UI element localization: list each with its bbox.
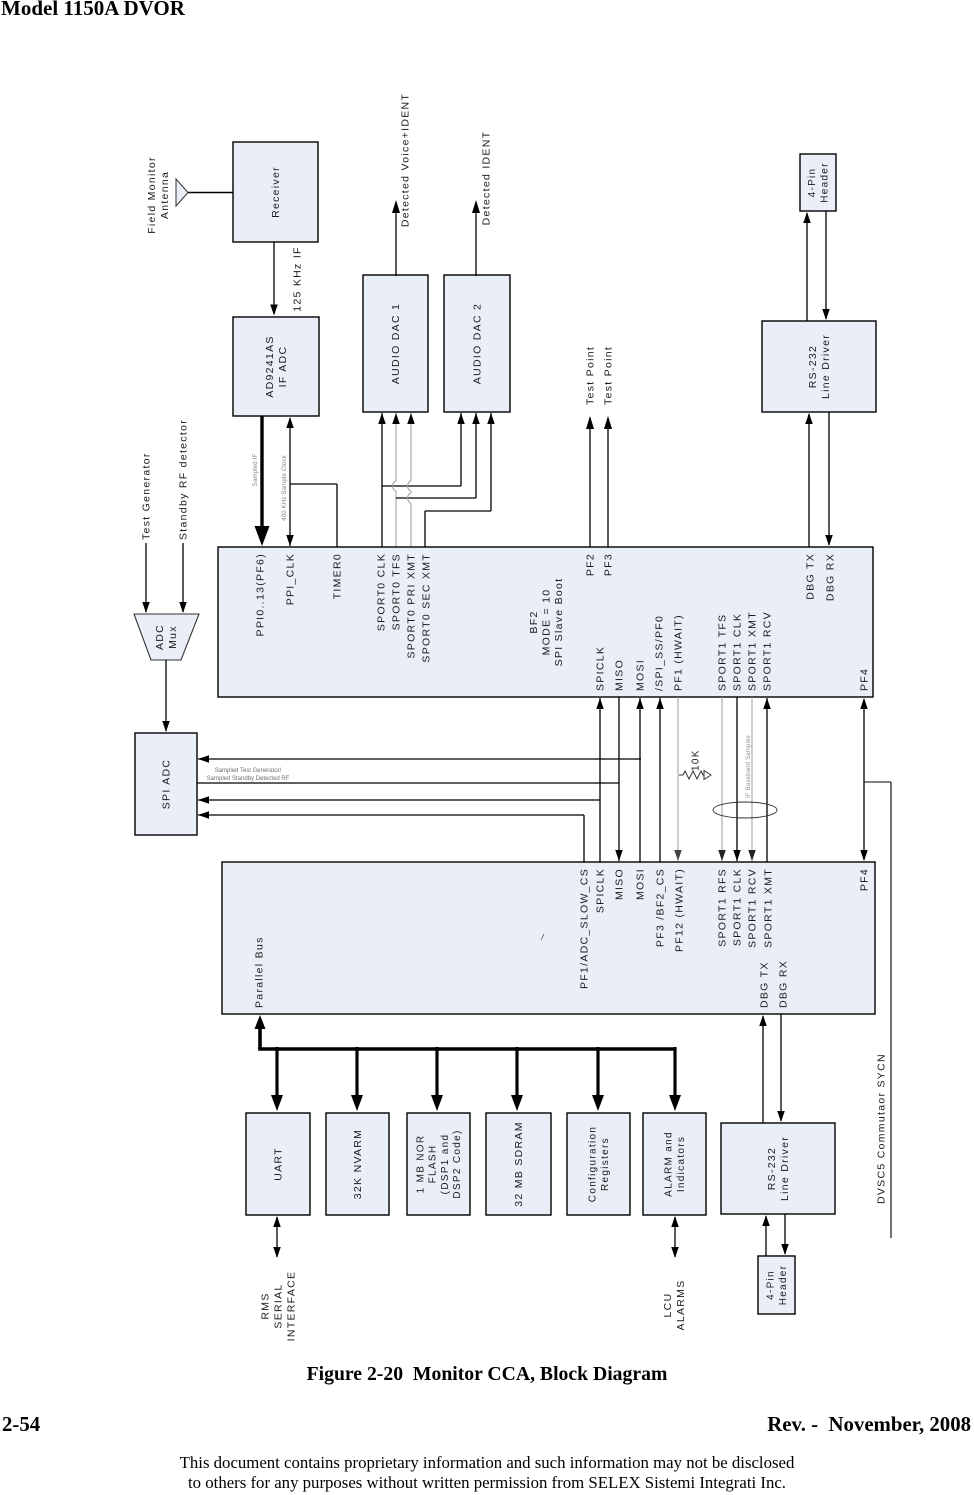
- block Receiver: [233, 142, 318, 242]
- svg-text:PPI0..13(PF6): PPI0..13(PF6): [255, 553, 267, 636]
- svg-text:ADCMux: ADCMux: [154, 624, 179, 650]
- block ALARM and Indicators: [643, 1113, 706, 1215]
- processor U2 DSP (Parallel Bus master): [222, 862, 875, 1014]
- svg-text:SPORT1 CLK: SPORT1 CLK: [732, 868, 744, 946]
- wire MISO vertical: [615, 697, 623, 861]
- svg-text:AUDIO DAC 1: AUDIO DAC 1: [390, 303, 402, 384]
- svg-text:Sampled IF: Sampled IF: [253, 454, 259, 487]
- bus branch to 32K NVARM: [351, 1047, 363, 1111]
- wire SPORT0 CLK to DACs: [378, 413, 465, 547]
- wire RS-232 to 4-Pin header (down): [781, 1214, 789, 1255]
- svg-text:PF3 /BF2_CS: PF3 /BF2_CS: [655, 868, 667, 947]
- wire antenna to Receiver: [188, 192, 233, 194]
- wire header to RS-232 (up): [803, 212, 811, 321]
- svg-text:Field MonitorAntenna: Field MonitorAntenna: [146, 156, 171, 234]
- figure caption: [0, 1363, 974, 1386]
- svg-text:Standby RF detector: Standby RF detector: [178, 419, 190, 540]
- svg-text:PF4: PF4: [859, 868, 871, 891]
- svg-text:UART: UART: [273, 1147, 285, 1181]
- wire DBG RX (down into DSP1): [825, 412, 833, 546]
- wire 125 KHz IF: [270, 242, 303, 316]
- wire ADC Mux to SPI ADC: [162, 660, 170, 732]
- svg-text:Receiver: Receiver: [270, 166, 282, 218]
- block RS-232 Line Driver (bottom): [721, 1123, 835, 1214]
- antenna Field Monitor Antenna: [146, 156, 188, 234]
- wire SPORT0 PRI XMT to DAC1: [407, 413, 415, 547]
- svg-text:TIMER0: TIMER0: [332, 553, 344, 599]
- block 4-Pin Header (bottom): [758, 1256, 795, 1314]
- svg-text:SPI ADC: SPI ADC: [161, 759, 173, 810]
- svg-text:PPI_CLK: PPI_CLK: [285, 553, 297, 605]
- page header: [1, 0, 185, 21]
- wire DBG RX (down into RS-232): [777, 1014, 785, 1122]
- block AUDIO DAC 2: [444, 275, 510, 412]
- block AUDIO DAC 1: [363, 275, 428, 412]
- wire SPORT1 CLK: [733, 697, 741, 861]
- wire RMS SERIAL INTERFACE (bidirectional): [260, 1216, 298, 1341]
- svg-text:SPICLK: SPICLK: [595, 646, 607, 691]
- wire PF4 (bidirectional): [860, 698, 868, 861]
- svg-text:SPORT0 CLK: SPORT0 CLK: [376, 553, 388, 631]
- svg-text:ConfigurationRegisters: ConfigurationRegisters: [588, 1126, 611, 1202]
- wire Standby RF detector input: [178, 419, 190, 613]
- svg-text:MISO: MISO: [614, 659, 626, 691]
- wire SPICLK to SPI ADC: [198, 796, 600, 804]
- block RS-232 Line Driver (top): [762, 321, 876, 412]
- wire SPORT1 RCV/XMT: [763, 698, 771, 862]
- svg-text:Detected Voice+IDENT: Detected Voice+IDENT: [400, 93, 412, 227]
- wire RS-232 to 4-Pin header (up): [762, 1215, 770, 1256]
- svg-text:SPORT1 CLK: SPORT1 CLK: [732, 613, 744, 691]
- svg-text:AUDIO DAC 2: AUDIO DAC 2: [472, 303, 484, 384]
- bus branch to FLASH: [431, 1047, 443, 1111]
- wire MOSI vertical: [636, 698, 644, 862]
- svg-text:Detected IDENT: Detected IDENT: [481, 131, 493, 226]
- bus branch to UART: [271, 1047, 283, 1111]
- svg-text:SPORT1 XMT: SPORT1 XMT: [763, 868, 775, 948]
- svg-text:PF1 (HWAIT): PF1 (HWAIT): [673, 614, 685, 691]
- svg-text:PF2: PF2: [585, 553, 597, 576]
- footer page number: [2, 1413, 40, 1437]
- svg-text:IF Baseband Samples: IF Baseband Samples: [746, 735, 752, 798]
- wire Test Generator input: [141, 452, 153, 613]
- svg-text:Sampled Standby Detected RF: Sampled Standby Detected RF: [207, 776, 290, 782]
- bus Parallel Bus trunk: [255, 1015, 677, 1049]
- svg-text:4-PinHeader: 4-PinHeader: [807, 162, 830, 203]
- svg-text:Test Point: Test Point: [585, 346, 597, 405]
- wire SPORT0 TFS to DACs: [392, 413, 480, 547]
- svg-text:SPORT1 XMT: SPORT1 XMT: [747, 611, 759, 691]
- svg-text:125 KHz IF: 125 KHz IF: [292, 246, 304, 312]
- svg-text:LCUALARMS: LCUALARMS: [662, 1280, 687, 1331]
- block 1 MB NOR FLASH: [407, 1113, 470, 1215]
- block 32K NVARM: [326, 1113, 389, 1215]
- svg-text:1 MB NORFLASH(DSP1 andDSP2 Cod: 1 MB NORFLASH(DSP1 andDSP2 Code): [416, 1129, 464, 1198]
- wire Detected IDENT: [472, 131, 493, 276]
- wire DBG TX (up into DSP2): [759, 1015, 767, 1123]
- svg-text:PF3: PF3: [603, 553, 615, 576]
- svg-text:DBG TX: DBG TX: [759, 961, 771, 1008]
- wire SPORT0 SEC XMT to DAC2: [425, 413, 495, 547]
- footer disclaimer: [0, 1453, 974, 1473]
- wire SPICLK vertical: [596, 698, 604, 862]
- footer revision: [767, 1413, 971, 1437]
- svg-text:Test Point: Test Point: [603, 346, 615, 405]
- svg-text:SPORT1 RCV: SPORT1 RCV: [762, 611, 774, 691]
- svg-text:ALARM andIndicators: ALARM andIndicators: [664, 1131, 687, 1197]
- wire LCU ALARMS (bidirectional): [662, 1216, 687, 1330]
- svg-text:Parallel Bus: Parallel Bus: [254, 936, 266, 1008]
- svg-text:4-PinHeader: 4-PinHeader: [766, 1265, 789, 1306]
- svg-text:SPORT0 SEC XMT: SPORT0 SEC XMT: [421, 553, 433, 663]
- svg-text:/SPI_SS/PF0: /SPI_SS/PF0: [654, 615, 666, 691]
- resistor 10K pull-up on HWAIT: [679, 749, 711, 779]
- svg-text:RMSSERIALINTERFACE: RMSSERIALINTERFACE: [260, 1271, 298, 1342]
- svg-text:SPICLK: SPICLK: [595, 868, 607, 913]
- wire SPORT1 XMT/RCV: [748, 697, 756, 861]
- wire DVSC5 Commutaor SYCN: [864, 782, 891, 1238]
- bus branch to ALARM: [669, 1047, 681, 1111]
- block AD9241AS IF ADC: [233, 317, 319, 416]
- mux ADC Mux: [134, 614, 199, 660]
- wire SPORT1 TFS/RFS: [718, 697, 726, 861]
- block 4-Pin Header (top): [800, 154, 836, 211]
- wire Test Point PF3: [603, 346, 615, 547]
- wire PPI_CLK / 400 KHz Sample Clock: [282, 417, 294, 546]
- svg-text:Test Generator: Test Generator: [141, 452, 153, 540]
- node IF Baseband Samples (ellipse): [713, 735, 777, 818]
- svg-text:DVSC5 Commutaor SYCN: DVSC5 Commutaor SYCN: [876, 1053, 888, 1204]
- svg-text:PF4: PF4: [859, 668, 871, 691]
- wire Test Point PF2: [585, 346, 597, 547]
- wire MOSI to SPI ADC (Sampled Test Generator / Standby Detected RF): [198, 755, 641, 782]
- svg-text:10K: 10K: [690, 749, 701, 771]
- wire TIMER0 elbow: [290, 484, 337, 547]
- block SPI ADC: [135, 733, 197, 835]
- wire PF1 (HWAIT) to PF12 (HWAIT): [674, 697, 682, 861]
- svg-text:32 MB SDRAM: 32 MB SDRAM: [513, 1121, 525, 1206]
- svg-text:SPORT1 TFS: SPORT1 TFS: [717, 614, 729, 691]
- svg-text:DBG TX: DBG TX: [805, 553, 817, 600]
- wire /SPI_SS/PF0 to PF3/BF2_CS: [656, 698, 664, 862]
- svg-text:PF1/ADC_SLOW_CS: PF1/ADC_SLOW_CS: [579, 868, 591, 989]
- wire DBG TX (up into RS-232): [805, 413, 813, 547]
- wire ADC_SLOW_CS to SPI ADC: [198, 811, 584, 862]
- processor U1 BF2 DSP (SPI slave): [218, 547, 873, 697]
- bus Sampled IF (thick): [253, 416, 270, 546]
- svg-text:MISO: MISO: [614, 868, 626, 900]
- svg-text:SPORT0 TFS: SPORT0 TFS: [391, 553, 403, 630]
- block UART: [246, 1113, 310, 1215]
- svg-text:DBG RX: DBG RX: [778, 960, 790, 1008]
- wire MISO from SPI ADC: [197, 782, 619, 784]
- svg-text:SPORT1 RCV: SPORT1 RCV: [747, 868, 759, 948]
- svg-text:Sampled Test Generator/: Sampled Test Generator/: [215, 768, 282, 774]
- svg-text:PF12 (HWAIT): PF12 (HWAIT): [674, 868, 686, 952]
- svg-text:SPORT0 PRI XMT: SPORT0 PRI XMT: [406, 553, 418, 659]
- wire Detected Voice+IDENT: [392, 93, 412, 276]
- svg-text:SPORT1 RFS: SPORT1 RFS: [717, 868, 729, 947]
- svg-text:400 KHz Sample Clock: 400 KHz Sample Clock: [282, 454, 288, 520]
- block 32 MB SDRAM: [486, 1113, 551, 1215]
- svg-text:32K NVARM: 32K NVARM: [352, 1129, 364, 1199]
- svg-text:MOSI: MOSI: [635, 659, 647, 691]
- bus branch to SDRAM: [511, 1047, 523, 1111]
- wire RS-232 to header (down): [822, 211, 830, 320]
- bus branch to Configuration Registers: [592, 1047, 604, 1111]
- block Configuration Registers: [567, 1113, 630, 1215]
- svg-text:DBG RX: DBG RX: [825, 553, 837, 601]
- svg-text:MOSI: MOSI: [635, 868, 647, 900]
